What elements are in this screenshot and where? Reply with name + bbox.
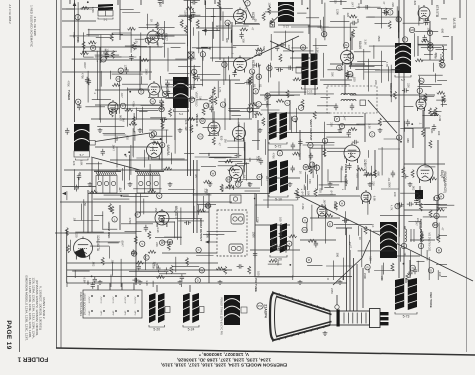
node pin callout: [192, 69, 197, 74]
wire: [307, 175, 309, 191]
svg-text:4.7K: 4.7K: [244, 8, 248, 14]
resistor: [293, 78, 301, 81]
wire: [64, 169, 200, 171]
wire: [216, 25, 249, 27]
wire: [122, 83, 148, 85]
wire: [197, 74, 220, 76]
wire: [342, 189, 344, 190]
node pin callout: [236, 182, 241, 187]
svg-text:100: 100: [248, 157, 252, 162]
svg-text:U: U: [161, 143, 163, 147]
wire: [210, 57, 253, 59]
wire: [356, 123, 381, 125]
wire: [77, 177, 79, 189]
capacitor: [129, 54, 133, 61]
wire: [441, 98, 443, 107]
wire: [110, 275, 112, 288]
svg-text:6CB6: 6CB6: [251, 60, 255, 68]
capacitor: [85, 77, 89, 84]
wire: [383, 263, 385, 275]
wire: [91, 118, 252, 120]
wire: [133, 283, 135, 290]
resistor: [202, 107, 205, 115]
resistor: [255, 48, 263, 51]
resistor: [132, 116, 135, 124]
wire: [196, 47, 210, 49]
node 42V arrow: [202, 29, 207, 32]
wire: [109, 246, 111, 258]
svg-text:2 117V: 2 117V: [101, 296, 103, 303]
wire: [327, 278, 329, 280]
node T2 tab: [169, 94, 174, 99]
wire: [130, 145, 132, 175]
wire: [367, 16, 400, 18]
node junction: [289, 264, 291, 266]
wire: [66, 8, 92, 10]
wire: [83, 199, 85, 232]
node pin callout: [159, 216, 164, 221]
wire: [67, 262, 218, 264]
node junction: [160, 138, 162, 140]
wire: [300, 195, 360, 197]
capacitor: [423, 18, 427, 25]
resistor: [270, 18, 273, 26]
node pin callout: [434, 195, 439, 200]
node L24 tab: [200, 307, 205, 313]
capacitor: [382, 10, 389, 14]
wire: [218, 165, 245, 167]
wire: [315, 38, 317, 65]
svg-text:.01: .01: [387, 178, 391, 182]
resistor: [161, 101, 164, 109]
svg-text:22K: 22K: [287, 45, 291, 50]
node pin callout: [226, 177, 231, 182]
wire: [351, 32, 353, 50]
node TB1 pin text: [88, 296, 137, 315]
wire: [327, 124, 360, 126]
resistor: [415, 59, 423, 62]
node small box: [415, 190, 423, 199]
svg-text:12AX4GTA: 12AX4GTA: [96, 235, 100, 252]
wire: [72, 270, 89, 272]
capacitor: [124, 67, 128, 74]
capacitor: [347, 130, 351, 137]
node junction: [128, 151, 130, 153]
node T6 bracket: [395, 75, 411, 77]
wire: [434, 73, 436, 82]
node pin callout: [245, 1, 250, 6]
wire: [304, 84, 306, 95]
wire: [384, 138, 400, 140]
wire: [418, 74, 443, 76]
wire: [225, 187, 260, 189]
svg-text:21AUP4: 21AUP4: [264, 304, 268, 318]
svg-text:.0047: .0047: [83, 62, 87, 69]
capacitor: [314, 241, 318, 248]
wire: [443, 36, 449, 38]
resistor: [286, 90, 289, 98]
ground: [178, 128, 183, 132]
svg-text:3.3K: 3.3K: [364, 39, 368, 45]
wire: [196, 160, 198, 233]
node pin callout: [272, 243, 277, 248]
wire: [229, 75, 231, 111]
capacitor: [137, 264, 141, 271]
resistor: [421, 234, 424, 242]
resistor: [420, 203, 423, 211]
svg-text:33K: 33K: [119, 188, 123, 193]
svg-text:100: 100: [256, 271, 260, 276]
capacitor: [259, 158, 263, 165]
node pin callout: [132, 251, 137, 256]
wire: [128, 155, 130, 181]
wire: [83, 32, 85, 57]
svg-text:AUDIO OUTPUT: AUDIO OUTPUT: [419, 219, 423, 242]
svg-text:6AU6: 6AU6: [358, 41, 362, 49]
node pin callout: [428, 268, 433, 273]
wire: [424, 128, 426, 164]
resistor: [279, 54, 282, 62]
wire: [206, 7, 233, 9]
wire: [416, 260, 424, 262]
wire: [268, 132, 342, 134]
resistor: [323, 149, 326, 157]
node pin callout: [196, 247, 201, 252]
svg-text:100: 100: [437, 131, 441, 136]
wire: [318, 194, 336, 196]
wire: [151, 158, 185, 160]
wire: [174, 119, 176, 153]
node pin callout: [309, 162, 314, 167]
wire: [422, 115, 438, 117]
wire: [150, 139, 162, 141]
svg-text:D: D: [197, 279, 199, 283]
svg-text:5-72: 5-72: [275, 145, 282, 149]
svg-text:5-20: 5-20: [153, 328, 160, 332]
ground: [128, 182, 133, 186]
resistor: [429, 210, 432, 218]
capacitor: [77, 103, 81, 110]
wire: [278, 24, 310, 26]
wire: [122, 168, 124, 181]
svg-text:6 AC: 6 AC: [88, 310, 91, 315]
wire: [321, 0, 323, 4]
resistor: [439, 59, 442, 67]
resistor: [406, 273, 409, 281]
wire: [308, 26, 310, 34]
node pin callout: [300, 45, 305, 50]
ground: [88, 182, 93, 186]
wire: [99, 105, 101, 122]
wire: [228, 147, 245, 149]
resistor: [402, 167, 405, 175]
svg-text:.002: .002: [125, 135, 129, 141]
wire: [418, 5, 420, 25]
wire: [254, 54, 260, 56]
node pin callout: [428, 43, 433, 48]
wire: [161, 120, 163, 170]
tube 6S4A: [317, 204, 327, 218]
transformer T6 ratio det black core: [395, 43, 411, 73]
resistor: [157, 275, 165, 278]
resistor: [364, 226, 367, 234]
svg-text:.01: .01: [135, 40, 139, 44]
wire: [252, 72, 254, 118]
ground: [218, 280, 223, 284]
svg-text:270K: 270K: [128, 218, 132, 224]
resistor: [148, 189, 156, 192]
wire: [186, 35, 188, 47]
wire: [103, 132, 125, 134]
wire: [357, 6, 381, 8]
wire: [180, 208, 182, 246]
transformer T5 IF black slab B: [311, 54, 318, 86]
tube 12AX4GTA dark sector: [75, 248, 87, 258]
wire: [285, 31, 287, 48]
node pin callout: [395, 204, 400, 209]
node pin callout: [428, 46, 433, 51]
node pin callout: [287, 241, 292, 246]
wire: [336, 295, 338, 305]
svg-text:5A STB: 5A STB: [452, 18, 456, 29]
wire: [143, 199, 145, 215]
svg-text:5-23: 5-23: [307, 90, 313, 94]
wire: [175, 257, 177, 272]
wire: [149, 46, 151, 80]
node pin callout: [220, 102, 225, 107]
tube 6BZ7: [147, 29, 159, 45]
wire: [197, 205, 199, 215]
wire: [357, 61, 386, 63]
wire: [319, 184, 339, 186]
wire: [125, 231, 142, 233]
svg-text:N: N: [412, 266, 414, 270]
wire: [363, 49, 365, 80]
coil L9 sound coil: [442, 46, 444, 63]
wire left margin rule: [19, 0, 21, 352]
resistor: [81, 7, 89, 10]
ground: [328, 182, 333, 186]
svg-text:22K: 22K: [184, 120, 188, 125]
wire: [161, 105, 163, 122]
wire: [126, 88, 128, 127]
svg-text:VERT HOLD: VERT HOLD: [195, 92, 199, 107]
wire: [439, 235, 447, 237]
wire: [366, 16, 375, 18]
resistor: [437, 235, 440, 243]
wire: [301, 189, 303, 190]
resistor: [216, 267, 224, 270]
svg-text:47: 47: [218, 143, 222, 146]
resistor: [134, 236, 137, 244]
svg-text:W: W: [200, 268, 203, 272]
wire: [97, 285, 99, 290]
capacitor: [132, 278, 139, 282]
wire: [257, 120, 259, 150]
resistor: [80, 52, 88, 55]
resistor: [203, 180, 211, 183]
wire: [400, 128, 413, 130]
wire: [264, 139, 266, 155]
wire: [171, 46, 181, 48]
wire: [307, 93, 334, 95]
wire: [383, 121, 400, 123]
wire: [314, 84, 316, 95]
wire diagonal: [91, 157, 140, 170]
resistor: [88, 41, 96, 44]
wire: [176, 213, 178, 240]
resistor: [289, 235, 297, 238]
wire: [289, 100, 291, 130]
wire: [343, 7, 356, 9]
resistor: [132, 42, 135, 50]
node junction: [400, 141, 402, 143]
wire: [342, 276, 344, 280]
svg-text:150K: 150K: [270, 237, 274, 243]
wire: [310, 217, 340, 219]
svg-text:TUNER: TUNER: [67, 90, 71, 101]
wire: [92, 99, 111, 101]
resistor: [161, 216, 164, 224]
wire: [349, 235, 351, 268]
resistor: [373, 170, 376, 178]
resistor: [161, 121, 164, 129]
resistor: [434, 107, 437, 115]
wire: [256, 194, 258, 222]
wire: [187, 0, 189, 176]
wire: [437, 207, 448, 209]
svg-text:820: 820: [356, 173, 360, 178]
wire: [292, 275, 294, 280]
node T8 pin 2: [418, 243, 423, 248]
wire: [95, 89, 150, 91]
capacitor: [352, 140, 359, 144]
resistor: [224, 266, 227, 274]
svg-text:RUNS 1 AND 2: RUNS 1 AND 2: [42, 297, 46, 318]
wire: [322, 17, 324, 38]
wire: [355, 63, 365, 65]
wire: [410, 251, 412, 271]
wire: [66, 191, 68, 200]
resistor: [422, 129, 425, 137]
capacitor: [166, 89, 170, 96]
node pin callout: [410, 265, 415, 270]
resistor: [429, 108, 432, 116]
wire: [196, 27, 232, 29]
resistor: [226, 185, 234, 188]
node pin callout: [247, 107, 252, 112]
tube 12AX4GTA: [74, 237, 93, 260]
wire: [428, 257, 430, 280]
svg-text:150K: 150K: [387, 182, 391, 188]
wire: [306, 141, 335, 143]
wire: [358, 250, 395, 252]
resistor: [186, 7, 194, 10]
svg-text:.01: .01: [73, 217, 77, 221]
wire: [397, 11, 399, 39]
wire: [432, 63, 434, 72]
capacitor: [422, 35, 426, 42]
wire: [139, 110, 147, 112]
capacitor: [402, 88, 409, 92]
node T5 tab: [296, 67, 302, 73]
node pin callout: [370, 132, 375, 137]
capacitor: [165, 81, 169, 88]
wire: [340, 0, 342, 5]
wire: [146, 14, 148, 30]
wire: [274, 67, 308, 69]
capacitor: [187, 15, 194, 19]
wire: [327, 169, 329, 182]
wire: [260, 94, 300, 96]
node pin callout: [440, 62, 445, 67]
wire: [303, 185, 305, 190]
wire: [231, 22, 233, 58]
wire: [356, 187, 358, 190]
resistor: [169, 109, 172, 117]
wire: [174, 221, 176, 238]
node pin callout: [76, 99, 81, 104]
svg-text:4.7K: 4.7K: [390, 205, 394, 211]
svg-text:.05: .05: [78, 171, 82, 175]
svg-text:EMERSON MODELS 123A, 123B, 123: EMERSON MODELS 123A, 123B, 123C, 123T,: [25, 276, 29, 341]
resistor: [349, 15, 357, 18]
wire: [212, 90, 214, 123]
node pin callout: [327, 222, 332, 227]
resistor: [292, 152, 300, 155]
wire: [233, 44, 259, 46]
wire: [362, 268, 364, 308]
capacitor: [432, 124, 436, 131]
wire: [375, 69, 404, 71]
resistor: [240, 28, 248, 31]
resistor: [421, 39, 429, 42]
capacitor: [189, 85, 196, 89]
node pin callout: [322, 31, 327, 36]
coil L22 deflection blocks: [269, 160, 288, 202]
wire: [137, 109, 158, 111]
wire: [423, 216, 447, 218]
svg-text:22K: 22K: [155, 242, 159, 247]
node pin callout: [118, 68, 123, 73]
capacitor: [93, 277, 97, 284]
node junction: [120, 195, 122, 197]
wire: [437, 140, 439, 210]
coil L20 width coil black: [380, 222, 397, 258]
wire: [94, 215, 103, 217]
svg-text:56K: 56K: [262, 46, 266, 51]
wire: [74, 169, 76, 190]
svg-text:820: 820: [333, 0, 337, 4]
resistor: [214, 97, 217, 105]
capacitor: [191, 10, 195, 17]
wire: [112, 73, 143, 75]
wire: [370, 166, 372, 190]
capacitor: [74, 185, 78, 192]
capacitor: [209, 105, 213, 112]
wire: [395, 255, 420, 257]
svg-text:.047: .047: [301, 191, 305, 197]
resistor: [128, 27, 136, 30]
wire: [208, 193, 210, 283]
wire: [96, 241, 120, 243]
svg-text:5-73: 5-73: [403, 315, 410, 319]
resistor: [198, 209, 206, 212]
capacitor: [131, 249, 135, 256]
wire: [211, 15, 241, 17]
svg-text:120K: 120K: [183, 10, 187, 16]
wire: [84, 56, 94, 58]
